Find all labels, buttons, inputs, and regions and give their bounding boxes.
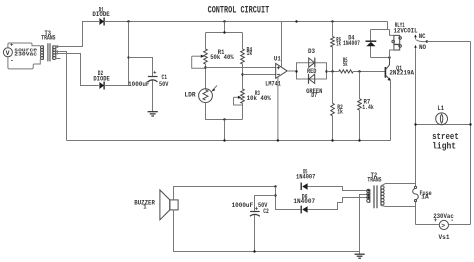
wire source bottom to T3 primary	[8, 57, 40, 69]
svg-text:2N2219A: 2N2219A	[389, 70, 414, 78]
wire D2 to bus	[104, 22, 128, 86]
transformer T2	[367, 172, 384, 208]
svg-text:U1: U1	[274, 55, 281, 63]
ground below C1	[148, 112, 158, 116]
R1 wiper wire	[192, 56, 206, 68]
wire T2 secondary top to rail	[381, 184, 416, 186]
wire T2 secondary bottom to rail	[381, 206, 416, 207]
svg-text:DIODE: DIODE	[92, 11, 109, 19]
wire R4 bottom	[242, 64, 244, 89]
source Vs circle	[3, 48, 12, 57]
resistor R2	[331, 72, 343, 141]
wire D5 to T2	[308, 187, 369, 191]
node dot R6 at bus	[331, 20, 333, 22]
node dot R7 rail	[358, 70, 360, 72]
capacitor C1	[128, 70, 169, 89]
wire NC to right rail	[427, 41, 471, 43]
LED box	[297, 63, 327, 79]
transformer T3	[41, 30, 56, 61]
wire U1 V-	[277, 77, 279, 141]
switch arm	[416, 40, 427, 42]
svg-text:1N4007: 1N4007	[296, 174, 315, 182]
T3 pin dots	[56, 45, 58, 47]
svg-text:>: >	[441, 222, 445, 229]
diode D1	[92, 7, 109, 26]
wire T3 sec lower to D2	[56, 54, 99, 86]
wire bus end to relay branch	[371, 22, 388, 30]
wire rail to Vs1	[416, 224, 471, 226]
wire T3 center tap to ground bus	[56, 52, 67, 141]
node dot bus drop	[223, 139, 225, 141]
source label	[14, 47, 37, 58]
diode D4	[343, 30, 376, 58]
svg-text:50V: 50V	[159, 81, 169, 89]
svg-text:DIODE: DIODE	[93, 75, 109, 83]
svg-text:CONTROL CIRCUIT: CONTROL CIRCUIT	[208, 5, 270, 16]
node dot C2 at bus	[253, 250, 255, 252]
svg-text:+: +	[434, 217, 438, 224]
lamp wire	[416, 124, 471, 126]
svg-text:TRANS: TRANS	[41, 34, 55, 42]
wire C2 top	[255, 196, 276, 211]
top bus +12V	[104, 21, 387, 23]
wire C2 bottom	[254, 215, 256, 252]
bottom bus control	[67, 140, 391, 142]
node dot C1 tee	[127, 56, 129, 58]
right rail	[470, 42, 472, 225]
svg-text:light: light	[432, 142, 456, 152]
svg-text:1N4007: 1N4007	[343, 40, 360, 48]
svg-text:1.4k: 1.4k	[362, 104, 374, 112]
svg-text:50k 40%: 50k 40%	[210, 54, 234, 62]
wire C1 bottom	[152, 81, 154, 112]
node dot buzzer/D5 tee	[274, 185, 276, 187]
T3 primary winding	[42, 46, 44, 60]
svg-text:1000uF: 1000uF	[232, 202, 254, 210]
node dot collector	[388, 56, 390, 58]
wire to U1 plus input	[206, 67, 276, 69]
node dot bottom link	[223, 118, 225, 120]
wire tee column	[276, 187, 301, 210]
node dot R4/R3	[241, 73, 243, 75]
capacitor C2	[232, 202, 269, 216]
resistor R4	[241, 47, 253, 65]
node dot R1 bottom	[204, 66, 206, 68]
wire to U1 minus input	[243, 74, 276, 76]
LED D7 green	[306, 74, 322, 100]
relay contact NO	[414, 44, 426, 52]
street light label	[432, 132, 459, 151]
wire C1 top	[129, 58, 153, 77]
wire D6 to T2	[308, 198, 369, 210]
svg-text:LM741: LM741	[265, 80, 281, 88]
node dot at bus x297	[295, 20, 297, 22]
svg-text:12VCOIL: 12VCOIL	[394, 28, 418, 36]
svg-text:+: +	[153, 70, 157, 77]
node dot LED box right	[325, 70, 327, 72]
wire T3 sec top to D1	[56, 22, 99, 47]
relay contact NC	[414, 33, 425, 41]
svg-text:1k: 1k	[247, 50, 253, 58]
resistor R7	[358, 72, 374, 141]
buzzer	[134, 190, 178, 220]
wire R1 bottom	[205, 64, 207, 89]
node dot U1 V- at bus	[277, 139, 279, 141]
svg-text:1k: 1k	[337, 109, 343, 117]
relay coil RLY1	[388, 22, 418, 58]
R3 wiper arrow	[234, 96, 239, 98]
svg-text:NC: NC	[419, 33, 426, 41]
diode D2	[93, 70, 109, 89]
node dot D2/C1 column at bus	[127, 20, 129, 22]
wire link drop to bus	[224, 120, 226, 141]
wire buzzer bottom	[174, 210, 360, 252]
node dot C2 tee	[274, 194, 276, 196]
LED D3 red	[307, 48, 316, 76]
diode D5	[296, 169, 315, 190]
svg-text:C2: C2	[263, 208, 269, 216]
T3 secondary winding	[52, 46, 54, 60]
wire U1 V+	[281, 22, 283, 68]
wire R3 bottom	[242, 103, 244, 119]
svg-text:-: -	[450, 217, 454, 224]
wire T2 center tap ground column	[360, 195, 369, 252]
T2 secondary winding	[380, 186, 382, 206]
T3 core	[48, 43, 50, 61]
svg-text:10k 40%: 10k 40%	[247, 95, 272, 103]
svg-text:1k: 1k	[336, 41, 341, 49]
svg-text:LDR: LDR	[184, 92, 196, 100]
op-amp U1	[265, 55, 287, 88]
svg-text:-: -	[10, 57, 14, 64]
svg-text:1A: 1A	[421, 193, 429, 200]
svg-text:Vs1: Vs1	[439, 234, 450, 242]
node dot arm end	[426, 40, 428, 42]
resistor R5	[339, 57, 353, 73]
R3 wiper wire	[234, 97, 243, 105]
left rail from NO	[415, 49, 417, 224]
T2 primary winding	[369, 189, 371, 203]
wire bus drop to R1/R4	[206, 22, 243, 50]
svg-text:D3: D3	[308, 48, 315, 56]
R1 wiper arrow	[192, 55, 202, 57]
potentiometer R1	[192, 49, 235, 68]
svg-text:D7: D7	[311, 92, 317, 100]
wire Q1 emitter to bus	[390, 80, 392, 140]
node dot LED box left	[295, 70, 297, 72]
node dot R1/R4 split	[223, 31, 225, 33]
potentiometer R3	[234, 89, 272, 105]
source Vs1	[433, 213, 454, 242]
node dot lamp right	[469, 123, 471, 125]
resistor R6	[331, 22, 341, 72]
svg-text:1N4007: 1N4007	[293, 198, 315, 206]
transistor Q1	[385, 58, 414, 81]
svg-text:230Vac: 230Vac	[14, 51, 37, 58]
wire T3 sec stub	[56, 46, 61, 59]
LDR light arrow	[212, 86, 217, 91]
T2 core	[374, 185, 377, 208]
node dot R7 at bus	[358, 139, 360, 141]
diode D6	[293, 194, 315, 214]
wire D4 bottom to collector node	[371, 57, 390, 59]
LDR	[184, 86, 217, 103]
wire buzzer top	[174, 187, 276, 200]
fuse	[413, 186, 432, 201]
node dot lamp left	[414, 123, 416, 125]
T2 pin dots	[368, 190, 370, 192]
ground bottom right	[355, 252, 365, 259]
svg-text:5k: 5k	[343, 61, 348, 69]
node dot R6 rail	[331, 70, 333, 72]
svg-text:1000uF: 1000uF	[128, 81, 149, 89]
svg-text:V: V	[6, 50, 10, 57]
wire R5 to Q1 base	[353, 71, 385, 73]
lamp L1	[436, 105, 448, 125]
svg-text:1: 1	[143, 203, 146, 211]
wire LED box to rail	[327, 71, 339, 73]
svg-text:TRANS: TRANS	[367, 176, 381, 184]
node dot R1/R4 feed at bus	[223, 20, 225, 22]
svg-text:L1: L1	[437, 105, 444, 113]
wire LDR bottom	[206, 103, 243, 120]
node dot R2 at bus	[331, 139, 333, 141]
wire source top to T3 primary	[8, 43, 40, 48]
wire U1 output	[287, 70, 296, 72]
svg-text:NO: NO	[419, 44, 426, 52]
